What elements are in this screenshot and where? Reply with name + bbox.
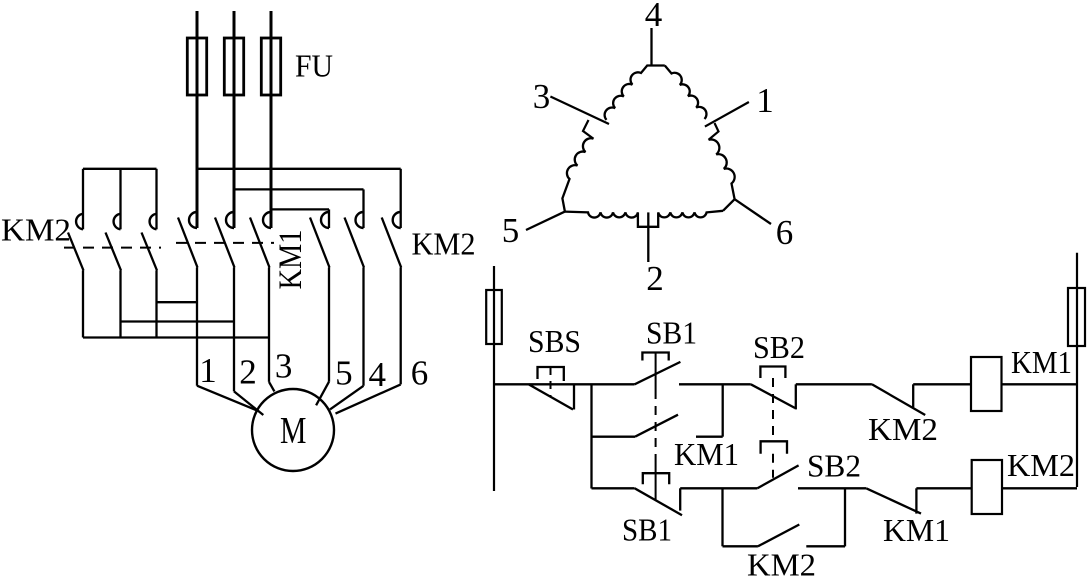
coil KM2 — [972, 460, 1002, 514]
wire KM2-left pole1 to wire3 — [83, 336, 269, 338]
wire terminal 6 — [400, 268, 402, 385]
contactor KM2 right pole 1 fixed contact — [321, 212, 329, 228]
contactor KM2 left pole 2 fixed contact — [114, 214, 121, 230]
svg-text:2: 2 — [239, 353, 257, 392]
svg-text:1: 1 — [756, 81, 774, 120]
svg-text:6: 6 — [776, 213, 794, 252]
fuse FU control right — [1068, 288, 1085, 346]
wire terminal 2 — [233, 268, 235, 392]
pushbutton SB2 lower stem (dashed) — [772, 454, 774, 478]
wire rung1 SBS to SB1 — [529, 383, 635, 385]
contactor KM2 left - top bus (star point) — [83, 168, 157, 170]
wire L2 supply — [233, 11, 236, 228]
fuse FU 1 — [187, 38, 206, 95]
svg-text:2: 2 — [646, 259, 664, 298]
svg-text:FU: FU — [295, 48, 333, 84]
pushbutton SBS fixed terminal — [573, 384, 575, 409]
pushbutton SB1 NO blade — [635, 488, 682, 515]
fuse FU 3 — [261, 38, 280, 95]
svg-text:KM1: KM1 — [1011, 344, 1072, 380]
svg-text:KM1: KM1 — [674, 436, 739, 472]
wire terminal 5 — [328, 268, 330, 382]
pushbutton SBS actuator bracket — [538, 367, 564, 381]
contactor KM1 pole 2 moving blade — [215, 218, 235, 268]
winding delta left side coils — [605, 66, 665, 120]
svg-text:KM2: KM2 — [412, 226, 476, 262]
contact KM1 NC fixed terminal — [915, 488, 917, 513]
node rung3 down to rung4 left — [721, 488, 723, 546]
wire rung1 to coil KM1 — [913, 383, 971, 385]
wire rung4 left — [723, 545, 758, 547]
wire terminal 1 — [196, 268, 198, 386]
winding delta lead terminal 6 — [735, 199, 771, 224]
svg-text:1: 1 — [199, 351, 217, 390]
pushbutton SBS contact blade — [529, 384, 574, 409]
contactor KM2 left pole 3 moving blade — [142, 233, 158, 271]
coil KM1 — [971, 357, 1002, 411]
pushbutton SB2 NC button bracket — [760, 367, 785, 379]
pushbutton SB1 NO fixed terminal — [679, 488, 681, 510]
svg-text:SBS: SBS — [528, 323, 581, 359]
svg-text:KM2: KM2 — [868, 411, 938, 447]
svg-text:5: 5 — [502, 211, 520, 250]
wire coil KM1 to right phase — [1002, 383, 1078, 385]
wire rung3 left — [592, 487, 635, 489]
wire control right phase — [1076, 253, 1078, 487]
contactor KM2 left pole 3 fixed contact — [150, 214, 157, 230]
contact KM1 NC interlock blade — [866, 488, 921, 513]
contactor KM2 left pole 2 lower conductor — [119, 271, 121, 338]
contactor KM2 left pole 1 upper conductor — [82, 169, 84, 230]
contact KM2 NC fixed terminal — [912, 384, 914, 407]
svg-text:4: 4 — [645, 0, 663, 34]
contactor KM2 left pole 3 upper conductor — [155, 169, 157, 230]
wire bus L2 to KM2-right pole2 — [234, 188, 364, 190]
svg-text:M: M — [280, 410, 306, 452]
svg-text:3: 3 — [275, 347, 293, 386]
pushbutton SB1 NC button bracket — [642, 353, 668, 361]
wire L3 supply — [270, 11, 273, 228]
wire rail rung1 — [494, 383, 529, 385]
svg-text:3: 3 — [533, 77, 551, 116]
wire terminal 3 — [268, 268, 270, 382]
pushbutton SB2 stem (dashed) — [772, 378, 774, 441]
contactor KM2 right pole 1 moving blade — [310, 218, 330, 268]
svg-text:KM1: KM1 — [883, 512, 950, 548]
wire rung2 up to rung1 — [722, 384, 724, 436]
svg-text:SB2: SB2 — [753, 329, 805, 365]
wire rung4 right — [806, 545, 845, 547]
winding delta lead terminal 5 — [526, 212, 565, 230]
node rung3 down to rung4 right — [844, 488, 846, 546]
contactor KM2 right pole 2 moving blade — [345, 218, 365, 268]
wire KM2-left pole2 to wire2 — [121, 320, 235, 322]
wire L1 supply — [196, 11, 199, 228]
wire bus L1 to KM2-right pole3 — [197, 168, 401, 170]
svg-text:5: 5 — [335, 354, 353, 393]
winding delta right side lower coils — [709, 139, 735, 210]
mechanical link KM1 (dashed) — [176, 242, 274, 244]
contactor KM1 pole 2 fixed contact — [226, 212, 234, 228]
fuse FU control left — [486, 290, 502, 344]
wire rung3 to coil KM2 — [916, 487, 971, 489]
svg-text:SB2: SB2 — [807, 448, 861, 484]
wire rung1 SB1 to SB2 — [679, 383, 751, 385]
contactor KM1 pole 1 moving blade — [178, 218, 198, 268]
contactor KM2 left pole 1 lower conductor — [82, 271, 84, 338]
wire terminal 4 — [362, 268, 364, 386]
svg-text:KM2: KM2 — [1, 212, 71, 248]
wire control left phase — [493, 266, 495, 491]
pushbutton SB1 NO button bracket — [643, 473, 669, 484]
contactor KM2 left pole 2 moving blade — [106, 233, 122, 271]
pushbutton SB2 NO button bracket — [761, 441, 787, 454]
contactor KM2 left pole 2 upper conductor — [119, 169, 121, 230]
winding delta left tap jog — [550, 97, 609, 139]
contactor KM1 pole 1 fixed contact — [189, 212, 197, 228]
wire bus L3 to KM2-right pole1 — [271, 208, 329, 210]
wire rung2 right — [696, 436, 723, 438]
contactor KM2 left pole 1 fixed contact — [76, 214, 83, 230]
pushbutton SB2 NC blade — [751, 384, 795, 408]
winding delta - apex lead terminal 4 — [650, 28, 652, 65]
contactor KM2 left pole 3 lower conductor — [155, 271, 157, 338]
wire rung2 left — [592, 436, 636, 438]
svg-text:KM2: KM2 — [1007, 447, 1075, 483]
winding delta right tap jog — [705, 102, 749, 140]
pushbutton SB2 NC fixed terminal — [795, 384, 797, 409]
winding delta bottom coils with center tap — [565, 211, 723, 227]
contact KM2 NC interlock blade — [872, 384, 925, 415]
contactor KM2 left pole 1 moving blade — [68, 233, 84, 271]
winding delta right side coils — [665, 66, 707, 120]
fuse FU 2 — [224, 38, 243, 95]
wire rung3 SB2 to KM1 NC — [798, 487, 866, 489]
contact KM2 NO self-hold blade — [758, 525, 799, 547]
contactor KM2 right pole 3 fixed contact — [393, 212, 401, 228]
contactor KM1 pole 3 moving blade — [250, 218, 270, 268]
winding delta left side lower coils — [562, 138, 593, 211]
svg-text:SB1: SB1 — [622, 512, 672, 548]
svg-text:4: 4 — [368, 355, 386, 394]
motor M circle — [252, 389, 334, 471]
wire rung1 SB2 to KM2 NC — [796, 383, 872, 385]
pushbutton SB1 stem — [655, 353, 657, 391]
winding delta center tap lead terminal 2 — [647, 212, 649, 262]
svg-text:KM2: KM2 — [747, 547, 816, 576]
contactor KM2 right pole 3 moving blade — [382, 218, 402, 268]
wire coil KM2 to right phase — [1002, 487, 1077, 489]
mechanical link KM2 left (dashed) — [64, 247, 161, 249]
svg-text:6: 6 — [411, 354, 429, 393]
svg-text:SB1: SB1 — [646, 315, 697, 351]
pushbutton SB2 NO blade — [757, 465, 798, 488]
pushbutton SB1 lower stem — [655, 462, 657, 500]
wire rung3 SB1 to SB2 — [680, 487, 757, 489]
wire KM2-left pole3 to wire1 — [157, 301, 198, 303]
contact KM1 NO self-hold blade — [635, 415, 678, 437]
contactor KM2 right pole 2 fixed contact — [356, 212, 364, 228]
contactor KM1 pole 3 fixed contact — [263, 212, 271, 228]
pushbutton SBS actuator stem (dashed) — [550, 367, 552, 396]
svg-text:KM1: KM1 — [273, 230, 309, 290]
pushbutton SB1 NC blade — [635, 362, 681, 384]
node branch down — [590, 384, 592, 488]
